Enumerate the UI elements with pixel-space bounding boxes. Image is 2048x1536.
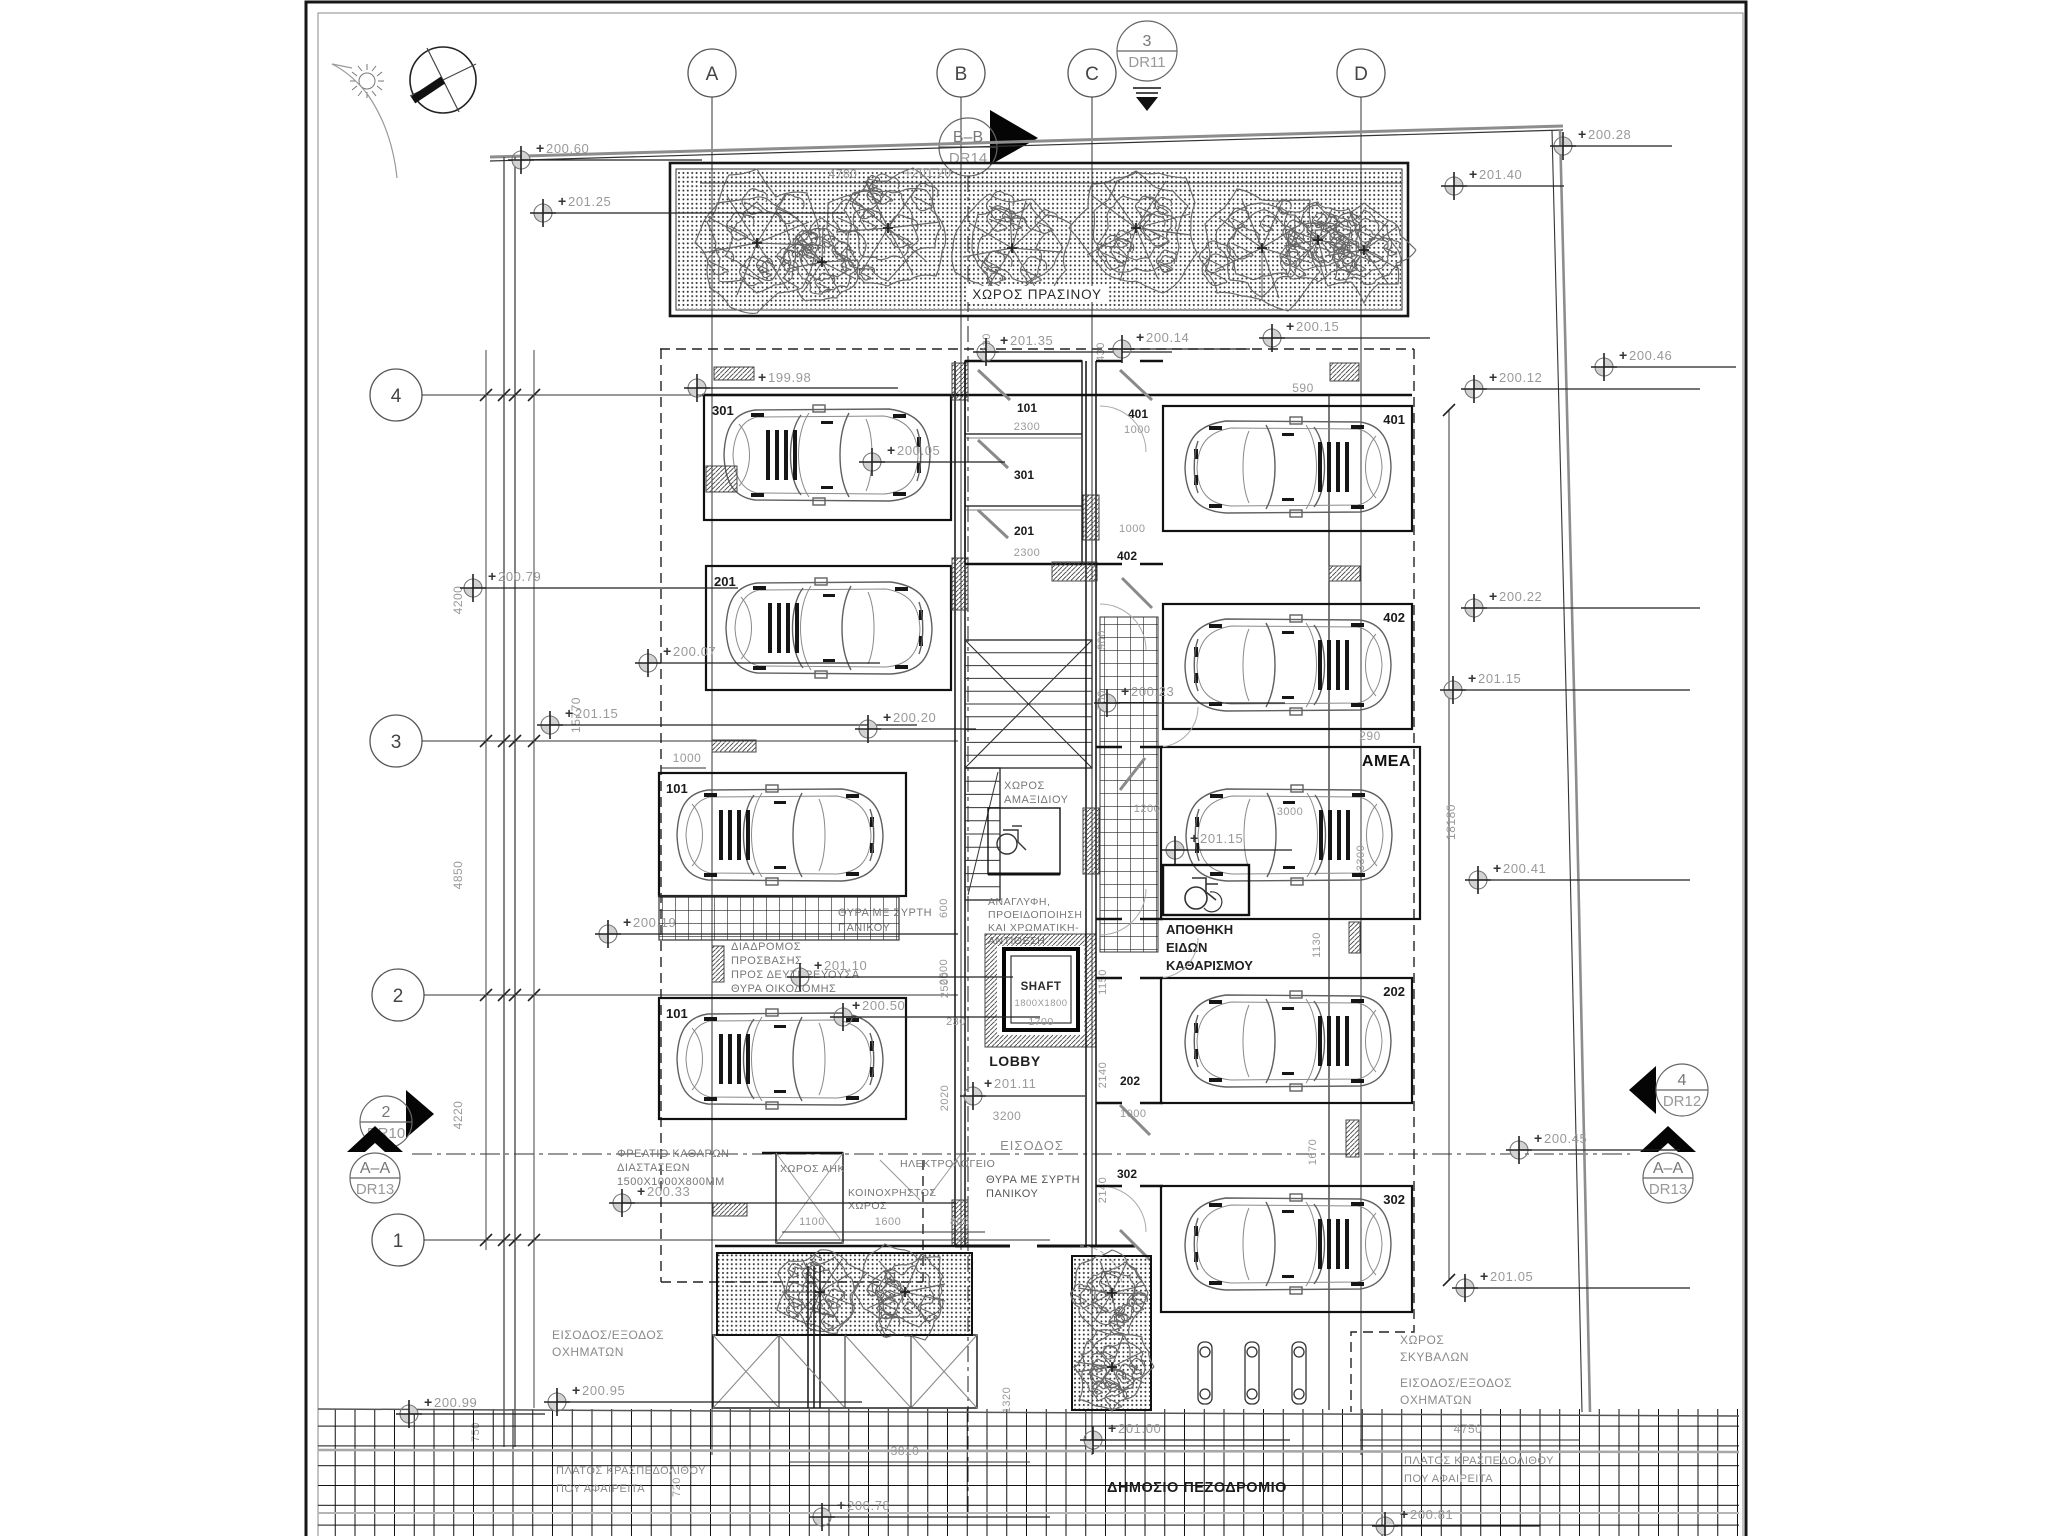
svg-text:1130: 1130 xyxy=(1311,932,1323,958)
setback dashed right xyxy=(1351,349,1414,1412)
svg-text:302: 302 xyxy=(1383,1192,1405,1207)
svg-text:+: + xyxy=(814,957,822,973)
parking row top heavy xyxy=(702,394,1412,397)
svg-text:401: 401 xyxy=(1383,412,1405,427)
grid line 4 xyxy=(422,394,706,396)
svg-text:2: 2 xyxy=(393,986,404,1007)
svg-text:1320: 1320 xyxy=(1001,1387,1013,1413)
svg-text:1200: 1200 xyxy=(1134,803,1160,815)
left wall pier b xyxy=(952,558,968,610)
svg-text:201: 201 xyxy=(1014,524,1034,538)
svg-text:201.15: 201.15 xyxy=(575,706,618,721)
svg-text:+: + xyxy=(1469,166,1477,182)
svg-text:200.46: 200.46 xyxy=(1629,348,1672,363)
site boundary right xyxy=(1560,130,1590,1412)
spot 201 rect xyxy=(706,566,951,690)
setback dashed top xyxy=(660,348,1414,350)
entrance door arc xyxy=(1080,1246,1122,1288)
svg-text:2020: 2020 xyxy=(939,1085,951,1111)
spot 101b rect xyxy=(659,998,906,1119)
svg-text:+: + xyxy=(424,1394,432,1410)
svg-text:201.11: 201.11 xyxy=(994,1076,1036,1091)
svg-text:+: + xyxy=(1578,126,1586,142)
section ref A-A/DR13 left xyxy=(347,1126,403,1152)
svg-text:4750: 4750 xyxy=(1454,1422,1483,1436)
svg-text:A–A: A–A xyxy=(360,1160,391,1177)
entrance heavy line xyxy=(715,1245,995,1248)
svg-text:ΕΙΣΟΔΟΣ/ΕΞΟΔΟΣ: ΕΙΣΟΔΟΣ/ΕΞΟΔΟΣ xyxy=(1400,1376,1512,1390)
setback dashed left xyxy=(660,349,662,1282)
dim extension line left a xyxy=(485,350,487,1250)
svg-text:1800X1800: 1800X1800 xyxy=(1014,998,1067,1009)
svg-text:301: 301 xyxy=(712,403,734,418)
storage block xyxy=(965,361,1082,564)
svg-text:201.15: 201.15 xyxy=(1478,671,1521,686)
hatch pier 1000 xyxy=(712,740,756,752)
svg-text:C: C xyxy=(1085,64,1099,85)
svg-text:200.15: 200.15 xyxy=(1296,319,1339,334)
svg-text:+: + xyxy=(837,1497,845,1513)
right hatch pier a xyxy=(1330,363,1359,381)
svg-text:302: 302 xyxy=(1117,1167,1137,1181)
svg-text:ΘΥΡΑ ΟΙΚΟΔΟΜΗΣ: ΘΥΡΑ ΟΙΚΟΔΟΜΗΣ xyxy=(731,983,836,995)
svg-text:4220: 4220 xyxy=(451,1101,465,1130)
car in 402 xyxy=(1185,615,1391,715)
svg-text:2: 2 xyxy=(382,1104,391,1121)
svg-text:200.07: 200.07 xyxy=(673,644,716,659)
svg-text:3300: 3300 xyxy=(1355,845,1367,871)
svg-text:290: 290 xyxy=(1359,729,1381,743)
right wall pier a xyxy=(1083,495,1099,540)
ahk room xyxy=(776,1153,843,1243)
svg-text:ΠΑΝΙΚΟΥ: ΠΑΝΙΚΟΥ xyxy=(986,1188,1038,1200)
svg-text:201.15: 201.15 xyxy=(1200,831,1243,846)
svg-text:+: + xyxy=(1468,670,1476,686)
stroller room xyxy=(988,808,1060,874)
car in 201 xyxy=(726,578,932,678)
svg-text:ΚΟΙΝΟΧΡΗΣΤΟΣ: ΚΟΙΝΟΧΡΗΣΤΟΣ xyxy=(848,1187,936,1199)
grid bubble 4 xyxy=(370,369,422,421)
svg-text:ΧΩΡΟΣ ΑΗΚ: ΧΩΡΟΣ ΑΗΚ xyxy=(780,1163,845,1175)
svg-text:A: A xyxy=(706,64,719,85)
entrance wall xyxy=(1037,1245,1135,1248)
spot AMEA rect xyxy=(1161,747,1420,919)
grid line C xyxy=(1091,97,1093,1455)
svg-text:201.25: 201.25 xyxy=(568,194,611,209)
svg-text:+: + xyxy=(488,568,496,584)
svg-text:101: 101 xyxy=(1017,401,1037,415)
svg-text:200.19: 200.19 xyxy=(633,915,676,930)
svg-text:401: 401 xyxy=(1128,407,1148,421)
svg-text:+: + xyxy=(536,140,544,156)
grid bubble 2 xyxy=(372,969,424,1021)
svg-text:ΟΧΗΜΑΤΩΝ: ΟΧΗΜΑΤΩΝ xyxy=(1400,1393,1472,1407)
svg-text:201.10: 201.10 xyxy=(824,958,867,973)
svg-text:+: + xyxy=(1480,1268,1488,1284)
svg-text:+: + xyxy=(1489,588,1497,604)
svg-text:DR13: DR13 xyxy=(356,1181,394,1198)
planter rails xyxy=(807,1266,809,1408)
svg-text:201: 201 xyxy=(714,574,736,589)
grid line 1 xyxy=(424,1239,1050,1241)
svg-text:199.98: 199.98 xyxy=(768,370,811,385)
grid line B xyxy=(960,97,962,1250)
svg-text:1100: 1100 xyxy=(799,1216,825,1228)
corridor tiles xyxy=(1100,617,1158,952)
svg-text:4200: 4200 xyxy=(451,586,465,615)
svg-text:+: + xyxy=(883,709,891,725)
section line B-B vertical xyxy=(967,176,969,1518)
svg-text:ΧΩΡΟΣ: ΧΩΡΟΣ xyxy=(1400,1333,1444,1347)
svg-text:DR12: DR12 xyxy=(1663,1093,1701,1110)
spot 301 rect xyxy=(704,395,951,520)
left wall pier a xyxy=(952,363,968,400)
green area dim line xyxy=(700,182,1402,184)
svg-text:+: + xyxy=(623,914,631,930)
svg-text:+: + xyxy=(1121,683,1129,699)
grid bubble C xyxy=(1068,49,1116,97)
svg-text:ΑΠΟΘΗΚΗ: ΑΠΟΘΗΚΗ xyxy=(1166,922,1233,937)
right hatch pier d xyxy=(1346,1120,1359,1157)
hatch box 199.98 xyxy=(714,367,754,380)
walkway tiles left xyxy=(659,896,899,940)
svg-text:1700: 1700 xyxy=(1028,1016,1053,1028)
svg-text:200.14: 200.14 xyxy=(1146,330,1189,345)
section ref 3/DR11 xyxy=(1117,21,1177,81)
svg-text:402: 402 xyxy=(1383,610,1405,625)
svg-text:200.33: 200.33 xyxy=(647,1184,690,1199)
car in 301 xyxy=(724,405,930,505)
car in 101b xyxy=(677,1009,883,1109)
svg-text:+: + xyxy=(1190,830,1198,846)
svg-text:+: + xyxy=(1619,347,1627,363)
svg-text:2500: 2500 xyxy=(938,959,950,985)
sheet outer border xyxy=(306,2,1746,1536)
svg-text:600: 600 xyxy=(938,898,950,918)
svg-text:2300: 2300 xyxy=(1014,421,1040,433)
svg-text:A–A: A–A xyxy=(1653,1160,1684,1177)
level markers xyxy=(508,140,702,174)
car in 302 xyxy=(1185,1194,1391,1294)
svg-text:200.41: 200.41 xyxy=(1503,861,1546,876)
svg-text:ΕΙΣΟΔΟΣ/ΕΞΟΔΟΣ: ΕΙΣΟΔΟΣ/ΕΞΟΔΟΣ xyxy=(552,1328,664,1342)
svg-text:200.99: 200.99 xyxy=(434,1395,477,1410)
svg-text:3200: 3200 xyxy=(993,1109,1022,1123)
shaft walls xyxy=(985,934,1096,1047)
svg-text:200.05: 200.05 xyxy=(897,443,940,458)
svg-text:+: + xyxy=(852,997,860,1013)
bike racks xyxy=(1198,1342,1306,1404)
svg-text:301: 301 xyxy=(1014,468,1034,482)
grid line D xyxy=(1360,97,1362,1455)
right column inner line xyxy=(1328,395,1330,1410)
green area label xyxy=(966,286,1108,302)
svg-text:200.50: 200.50 xyxy=(862,998,905,1013)
svg-text:3: 3 xyxy=(1143,33,1152,50)
svg-text:ΕΙΣΟΔΟΣ: ΕΙΣΟΔΟΣ xyxy=(1000,1138,1064,1153)
svg-text:ΔΙΑΔΡΟΜΟΣ: ΔΙΑΔΡΟΜΟΣ xyxy=(731,941,801,953)
svg-text:590: 590 xyxy=(1292,381,1314,395)
building left wall xyxy=(954,361,956,1246)
svg-text:200.81: 200.81 xyxy=(1410,1507,1453,1522)
grid line 2 xyxy=(424,994,958,996)
svg-text:200.60: 200.60 xyxy=(546,141,589,156)
section ref 4/DR12 xyxy=(1629,1066,1656,1114)
svg-text:1600: 1600 xyxy=(875,1216,901,1228)
svg-text:B: B xyxy=(955,64,968,85)
svg-text:2140: 2140 xyxy=(1097,1177,1109,1203)
svg-text:202: 202 xyxy=(1120,1074,1140,1088)
car in 101a xyxy=(677,785,883,885)
svg-text:4850: 4850 xyxy=(451,861,465,890)
section ref 2/DR10 xyxy=(406,1090,434,1138)
svg-text:2300: 2300 xyxy=(1014,547,1040,559)
svg-text:DR11: DR11 xyxy=(1128,54,1165,71)
svg-text:1000: 1000 xyxy=(1119,523,1145,535)
svg-text:4780: 4780 xyxy=(829,167,858,181)
svg-text:200.20: 200.20 xyxy=(893,710,936,725)
svg-text:201.05: 201.05 xyxy=(1490,1269,1533,1284)
svg-text:ΑΝΑΓΛΥΦΗ,: ΑΝΑΓΛΥΦΗ, xyxy=(988,896,1050,908)
svg-text:201.35: 201.35 xyxy=(1010,333,1053,348)
svg-text:+: + xyxy=(565,705,573,721)
sidewalk top edge xyxy=(318,1409,1739,1416)
svg-text:+: + xyxy=(1400,1506,1408,1522)
grid bubble 3 xyxy=(370,715,422,767)
svg-text:DR14: DR14 xyxy=(949,150,987,167)
svg-text:1150: 1150 xyxy=(1097,969,1109,995)
svg-text:ΘΥΡΑ ΜΕ ΣΥΡΤΗ: ΘΥΡΑ ΜΕ ΣΥΡΤΗ xyxy=(838,907,932,919)
right wall pier b xyxy=(1083,808,1099,874)
svg-text:AMEA: AMEA xyxy=(1362,753,1411,770)
green area border xyxy=(670,163,1408,316)
svg-text:ΔΙΑΣΤΑΣΕΩΝ: ΔΙΑΣΤΑΣΕΩΝ xyxy=(617,1162,690,1174)
left planter xyxy=(717,1253,972,1335)
svg-text:ΚΑΘΑΡΙΣΜΟΥ: ΚΑΘΑΡΙΣΜΟΥ xyxy=(1166,958,1253,973)
dim extension line left b xyxy=(533,350,535,1408)
svg-text:ΗΛΕΚΤΡΟΛΟΓΕΙΟ: ΗΛΕΚΤΡΟΛΟΓΕΙΟ xyxy=(900,1158,995,1170)
svg-text:+: + xyxy=(637,1183,645,1199)
spot 302 rect xyxy=(1161,1186,1412,1312)
svg-text:+: + xyxy=(887,442,895,458)
svg-text:+: + xyxy=(558,193,566,209)
hatch pier frea xyxy=(713,1203,747,1216)
svg-text:LOBBY: LOBBY xyxy=(989,1053,1041,1069)
svg-text:720: 720 xyxy=(671,1477,683,1497)
right hatch pier c xyxy=(1349,922,1360,953)
car in AMEA xyxy=(1186,785,1392,885)
svg-text:200.45: 200.45 xyxy=(1544,1131,1587,1146)
curb line xyxy=(318,1450,1739,1452)
svg-text:+: + xyxy=(663,643,671,659)
svg-text:202: 202 xyxy=(1383,984,1405,999)
svg-text:18180: 18180 xyxy=(1444,804,1458,840)
svg-text:200.79: 200.79 xyxy=(498,569,541,584)
svg-text:1670: 1670 xyxy=(1307,1139,1319,1165)
svg-text:SHAFT: SHAFT xyxy=(1021,981,1062,993)
spot 101a rect xyxy=(659,773,906,896)
right hatch pier b xyxy=(1329,566,1360,581)
svg-text:200.23: 200.23 xyxy=(1131,684,1174,699)
svg-text:101: 101 xyxy=(666,1006,688,1021)
road edge curve xyxy=(332,64,397,178)
svg-text:800: 800 xyxy=(950,1216,970,1228)
svg-text:D: D xyxy=(1354,64,1368,85)
stair top pier xyxy=(1052,562,1097,581)
svg-text:201.00: 201.00 xyxy=(1118,1421,1161,1436)
car in 202 xyxy=(1185,991,1391,1091)
left planter trees xyxy=(777,1250,867,1334)
svg-text:+: + xyxy=(758,369,766,385)
svg-text:ΑΜΑΞΙΔΙΟΥ: ΑΜΑΞΙΔΙΟΥ xyxy=(1004,794,1069,806)
svg-text:ΧΩΡΟΣ ΠΡΑΣΙΝΟΥ: ΧΩΡΟΣ ΠΡΑΣΙΝΟΥ xyxy=(972,287,1102,302)
svg-text:ΧΩΡΟΣ: ΧΩΡΟΣ xyxy=(1004,780,1045,792)
svg-text:ΠΡΟΕΙΔΟΠΟΙΗΣΗ: ΠΡΟΕΙΔΟΠΟΙΗΣΗ xyxy=(988,909,1082,921)
svg-text:+: + xyxy=(1534,1130,1542,1146)
svg-text:ΧΩΡΟΣ: ΧΩΡΟΣ xyxy=(848,1200,887,1212)
svg-text:ΦΡΕΑΤΙΟ ΚΑΘΑΡΩΝ: ΦΡΕΑΤΙΟ ΚΑΘΑΡΩΝ xyxy=(617,1148,730,1160)
svg-text:DR13: DR13 xyxy=(1649,1181,1687,1198)
grid bubble B xyxy=(937,49,985,97)
left wall pier c xyxy=(952,1200,968,1246)
svg-text:ΟΧΗΜΑΤΩΝ: ΟΧΗΜΑΤΩΝ xyxy=(552,1345,624,1359)
svg-text:2140: 2140 xyxy=(1097,1062,1109,1088)
corridor wall stubs xyxy=(1096,361,1163,1186)
svg-text:201.40: 201.40 xyxy=(1479,167,1522,182)
right planter trees xyxy=(1071,1250,1149,1335)
svg-text:ΠΟΥ ΑΦΑΙΡΕΙΤΑ: ΠΟΥ ΑΦΑΙΡΕΙΤΑ xyxy=(1404,1473,1493,1485)
shaft box xyxy=(1004,949,1078,1030)
dim line 18180 xyxy=(1448,410,1450,1280)
svg-text:ΠΡΟΣΒΑΣΗΣ: ΠΡΟΣΒΑΣΗΣ xyxy=(731,955,802,967)
svg-text:+: + xyxy=(1493,860,1501,876)
green area trees xyxy=(695,169,820,313)
svg-text:+: + xyxy=(1000,332,1008,348)
svg-text:4: 4 xyxy=(391,386,402,407)
section ref B-B/DR14 xyxy=(990,110,1038,165)
sun symbol xyxy=(350,64,384,98)
svg-text:ΕΙΔΩΝ: ΕΙΔΩΝ xyxy=(1166,940,1207,955)
grid line A xyxy=(711,97,713,1455)
sidewalk tiles xyxy=(318,1409,1739,1536)
site boundary left xyxy=(503,157,505,1447)
site boundary top xyxy=(490,126,1563,157)
car in 401 xyxy=(1185,417,1391,517)
svg-text:ΔΗΜΟΣΙΟ ΠΕΖΟΔΡΟΜΙΟ: ΔΗΜΟΣΙΟ ΠΕΖΟΔΡΟΜΙΟ xyxy=(1107,1480,1287,1496)
svg-text:+201.20: +201.20 xyxy=(904,166,951,180)
svg-text:200.78: 200.78 xyxy=(847,1498,890,1513)
svg-text:ΚΑΙ ΧΡΩΜΑΤΙΚΗ-: ΚΑΙ ΧΡΩΜΑΤΙΚΗ- xyxy=(988,922,1079,934)
north arrow xyxy=(410,47,476,113)
section ref A-A/DR13 right xyxy=(1640,1126,1696,1152)
grid bubble 1 xyxy=(372,1214,424,1266)
svg-text:402: 402 xyxy=(1117,549,1137,563)
svg-text:1000: 1000 xyxy=(1124,424,1150,436)
spot 202 rect xyxy=(1161,978,1412,1103)
svg-text:200.12: 200.12 xyxy=(1499,370,1542,385)
svg-text:3810: 3810 xyxy=(891,1444,920,1458)
svg-text:3: 3 xyxy=(391,732,402,753)
svg-text:+: + xyxy=(572,1382,580,1398)
svg-text:1000: 1000 xyxy=(673,751,702,765)
svg-text:ΣΚΥΒΑΛΩΝ: ΣΚΥΒΑΛΩΝ xyxy=(1400,1350,1469,1364)
door swing arcs xyxy=(1100,406,1198,1232)
svg-text:ΠΛΑΤΟΣ ΚΡΑΣΠΕΔΟΛΙΘΟΥ: ΠΛΑΤΟΣ ΚΡΑΣΠΕΔΟΛΙΘΟΥ xyxy=(556,1465,706,1477)
svg-text:ΠΑΝΙΚΟΥ: ΠΑΝΙΚΟΥ xyxy=(838,922,890,934)
svg-text:ΠΟΥ ΑΦΑΙΡΕΙΤΑ: ΠΟΥ ΑΦΑΙΡΕΙΤΑ xyxy=(556,1483,645,1495)
building right wall xyxy=(1085,361,1087,1246)
svg-text:4: 4 xyxy=(1678,1072,1687,1089)
svg-text:230: 230 xyxy=(946,1016,966,1028)
spot 401 rect xyxy=(1163,406,1412,531)
green area dot hatch xyxy=(677,170,1401,309)
grid bubble A xyxy=(688,49,736,97)
grid bubble D xyxy=(1337,49,1385,97)
svg-text:ΠΛΑΤΟΣ ΚΡΑΣΠΕΔΟΛΙΘΟΥ: ΠΛΑΤΟΣ ΚΡΑΣΠΕΔΟΛΙΘΟΥ xyxy=(1404,1455,1554,1467)
section line A-A xyxy=(412,1153,1630,1155)
svg-text:101: 101 xyxy=(666,781,688,796)
curb line 2 xyxy=(318,1512,1739,1514)
stair xyxy=(965,640,1092,768)
svg-text:200.28: 200.28 xyxy=(1588,127,1631,142)
svg-text:+: + xyxy=(1489,369,1497,385)
svg-text:900: 900 xyxy=(1096,630,1108,650)
wheelchair box xyxy=(1163,865,1249,915)
hatch pier walkway xyxy=(712,946,724,982)
svg-text:1: 1 xyxy=(393,1231,404,1252)
lobby level xyxy=(960,1075,1085,1110)
svg-text:ΘΥΡΑ ΜΕ ΣΥΡΤΗ: ΘΥΡΑ ΜΕ ΣΥΡΤΗ xyxy=(986,1174,1080,1186)
ramp band xyxy=(713,1335,977,1408)
grid line 3 xyxy=(422,740,958,742)
right planter xyxy=(1072,1256,1151,1410)
setback dashed notch xyxy=(661,1158,923,1282)
dimension ticks on grid lines xyxy=(480,389,540,1246)
left edge hatch pier 301-201 xyxy=(706,466,737,492)
svg-text:200.95: 200.95 xyxy=(582,1383,625,1398)
svg-text:+: + xyxy=(984,1075,992,1091)
spot 402 rect xyxy=(1163,604,1412,729)
svg-text:+: + xyxy=(1286,318,1294,334)
svg-text:3000: 3000 xyxy=(1277,806,1303,818)
svg-text:200.22: 200.22 xyxy=(1499,589,1542,604)
svg-text:+: + xyxy=(1136,329,1144,345)
door leaves xyxy=(978,370,1152,1260)
sheet inner border xyxy=(318,13,1743,1536)
svg-text:+: + xyxy=(1108,1420,1116,1436)
